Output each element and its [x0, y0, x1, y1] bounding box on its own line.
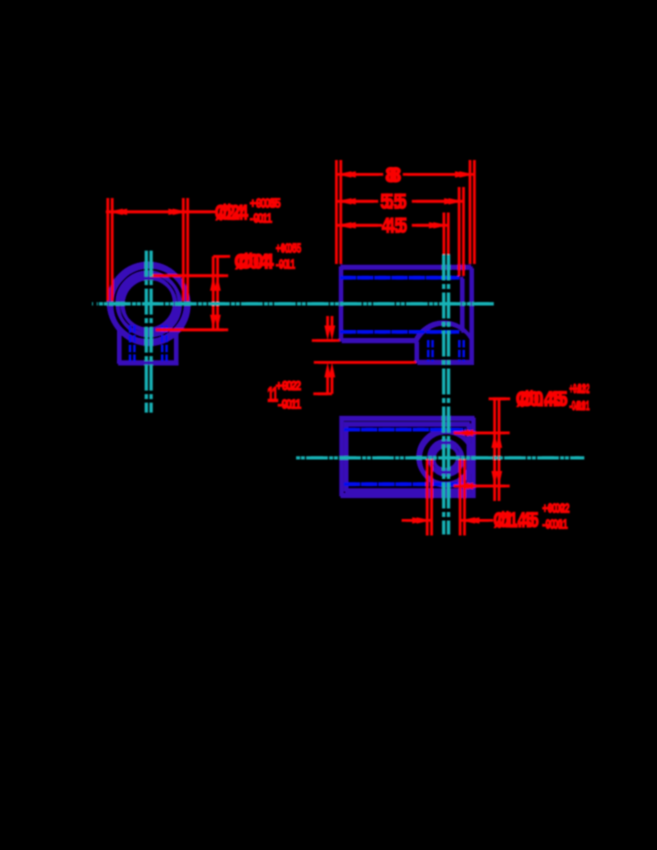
dim boss height 1: text — [272, 378, 302, 412]
dim boss OD: leader to text — [493, 397, 510, 400]
dim 5.5: dimension line — [341, 200, 378, 203]
dim boss bore: extension line right — [463, 459, 466, 536]
dim boss height 1: lower arrow shaft — [331, 375, 334, 393]
dim boss OD: arrow down — [496, 471, 502, 486]
dim bore front: text — [239, 241, 302, 274]
dim 4.5: dimension line — [341, 224, 382, 227]
dim boss height 1: extension at tube bottom — [316, 339, 340, 342]
dim 5.5: arrow left — [341, 198, 356, 204]
centerline boss axis vertical — [447, 255, 450, 535]
side view rect left edge — [340, 268, 343, 341]
dim bore front: dimension line — [216, 256, 219, 329]
dim 8: extension line right — [473, 160, 476, 264]
centerline tube axis horizontal — [97, 302, 497, 305]
side view boss intersection arc — [416, 324, 472, 342]
dim OD front: dimension line — [110, 210, 215, 213]
dim boss bore: extension line left — [430, 459, 433, 536]
front view bore circle — [123, 278, 176, 331]
side view tube bore hidden top — [344, 276, 464, 280]
dim OD front: extension line left — [111, 198, 114, 301]
side view boss left edge — [416, 342, 419, 364]
side view tube bore hidden bottom — [344, 330, 464, 334]
dim boss OD: arrow up — [496, 433, 502, 448]
bottom view boss outer circle — [420, 432, 474, 486]
dim boss bore: dimension line left with arrow — [406, 519, 432, 522]
dim bore front: arrow down — [214, 315, 220, 330]
dim boss height 1: leader to text — [318, 392, 332, 395]
bottom view outer rect — [342, 419, 474, 496]
dim OD front: extension line right — [186, 198, 189, 301]
dim 8: arrow right — [459, 171, 474, 177]
front view boss bottom edge — [118, 362, 179, 365]
dim boss bore: dimension line right with arrow — [465, 519, 494, 522]
dim OD front: arrow right — [173, 209, 188, 215]
bottom view inner rect — [347, 425, 470, 492]
dim 8: extension line left — [339, 160, 342, 264]
side view bore end face line — [461, 279, 464, 333]
centerline bottom view horizontal — [296, 456, 584, 459]
dim 8: dimension line — [341, 173, 383, 176]
dim boss bore: text — [498, 501, 570, 533]
side view boss bottom edge — [417, 362, 474, 365]
dim boss OD: extension bottom with arrow — [458, 485, 510, 488]
dim OD front: arrow left — [112, 209, 127, 215]
bottom view tube bore hidden bottom — [348, 482, 470, 486]
front view outer circle OD — [110, 265, 189, 344]
front view boss right edge — [175, 330, 178, 363]
side view rect right edge — [471, 268, 474, 363]
dim boss height 1: lower arrow head pointing up — [329, 362, 335, 377]
side view boss bore hidden right — [462, 340, 465, 362]
dim 4.5: arrow left — [341, 222, 356, 228]
dim bore front: leader to text — [218, 255, 231, 258]
dim boss height 1: upper arrow shaft — [331, 316, 334, 335]
centerline front view vertical — [149, 251, 152, 413]
dim 5.5: arrow right — [449, 198, 464, 204]
front view boss bore hidden right — [165, 325, 168, 361]
dim bore front: extension line bottom — [160, 328, 228, 331]
dim bore front: extension line top — [154, 274, 228, 277]
bottom view tube bore hidden top — [348, 428, 470, 432]
bottom view boss chamfer circle — [434, 446, 459, 471]
side view rect top edge — [342, 266, 473, 269]
dim boss height 1: upper arrow head pointing down — [329, 326, 335, 341]
dim boss OD: text — [520, 381, 590, 413]
front view boss bore hidden left — [133, 325, 136, 361]
dim 8: arrow left — [341, 171, 356, 177]
dim bore front: arrow up — [214, 276, 220, 291]
dim 5.5: extension line right — [462, 187, 465, 276]
dim OD front: text — [219, 196, 281, 226]
bottom view boss bore circle — [430, 442, 463, 475]
dim boss OD: dimension line vertical — [498, 399, 501, 501]
front view boss left edge — [118, 330, 121, 363]
side view boss bore hidden left — [431, 340, 434, 362]
front view chamfer circle — [118, 274, 180, 336]
dim 4.5: arrow right — [433, 222, 448, 228]
side view rect bottom edge — [342, 340, 417, 343]
dim boss height 1: extension at boss bottom — [318, 361, 416, 364]
dim boss OD: extension top with arrow — [458, 431, 510, 434]
dim 4.5: extension line right (above boss centerline) — [447, 213, 450, 255]
